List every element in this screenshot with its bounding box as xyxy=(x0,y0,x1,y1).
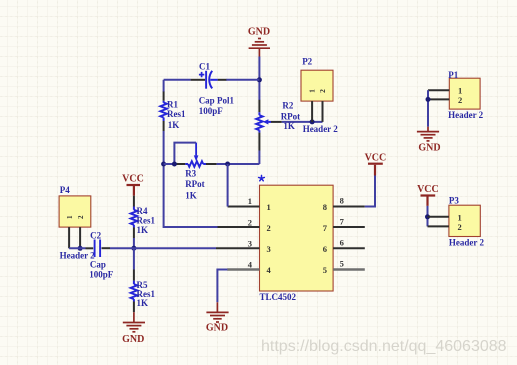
node junction P4 pin2 xyxy=(78,246,83,251)
U1 pin 5 xyxy=(333,268,365,270)
wire junction to R5 xyxy=(133,248,135,269)
svg-text:2: 2 xyxy=(267,223,271,233)
svg-text:100pF: 100pF xyxy=(199,106,224,116)
svg-text:C2: C2 xyxy=(90,230,101,240)
wire pin1 to net xyxy=(227,164,229,207)
svg-text:R3: R3 xyxy=(185,169,196,179)
P4 pin 2 xyxy=(79,227,81,248)
header P1 xyxy=(449,78,480,109)
power VCC (right of U1) xyxy=(374,165,376,176)
svg-text:3: 3 xyxy=(267,244,271,254)
node junction P3 pin1 xyxy=(425,214,430,219)
wire VCC to P3 xyxy=(427,206,429,227)
svg-text:VCC: VCC xyxy=(122,174,144,185)
P3 pin 1 xyxy=(428,216,449,218)
R2 wiper arrow xyxy=(263,119,269,124)
svg-text:1K: 1K xyxy=(137,298,149,308)
ground GND (top) xyxy=(249,39,270,57)
svg-text:https://blog.csdn.net/qq_46063: https://blog.csdn.net/qq_46063088 xyxy=(261,338,507,355)
svg-text:GND: GND xyxy=(122,334,144,345)
P2 pin 1 xyxy=(311,101,313,122)
R3 wiper arrow xyxy=(194,155,199,161)
svg-text:5: 5 xyxy=(323,265,327,275)
svg-text:2: 2 xyxy=(458,222,462,232)
wire C1 horizontal xyxy=(164,79,191,81)
U1 pin 8 xyxy=(333,206,365,208)
svg-text:GND: GND xyxy=(248,27,270,38)
node junction C1/GND/R2 xyxy=(257,77,262,82)
svg-text:VCC: VCC xyxy=(417,184,439,195)
svg-text:1K: 1K xyxy=(168,120,180,130)
resistor R4 xyxy=(133,196,135,207)
node junction P1 pin2 xyxy=(426,97,431,102)
U1 pin 3 xyxy=(216,247,260,249)
svg-text:8: 8 xyxy=(340,195,344,205)
svg-text:Header 2: Header 2 xyxy=(449,237,485,247)
wire top GND to C1 junction xyxy=(258,57,260,98)
wire R3 wiper loop xyxy=(174,143,196,164)
wire R1 branch vertical xyxy=(163,80,165,92)
U1 pin 7 xyxy=(333,226,365,228)
U1 pin 1 xyxy=(228,206,260,208)
svg-text:RPot: RPot xyxy=(185,179,205,189)
node junction R1/bus xyxy=(161,162,166,167)
node junction pin1 branch xyxy=(225,162,230,167)
svg-text:TLC4502: TLC4502 xyxy=(260,292,297,302)
svg-text:1K: 1K xyxy=(185,191,197,201)
svg-text:R2: R2 xyxy=(282,101,293,111)
wire R1 bottom to bus xyxy=(164,131,218,227)
svg-text:Cap: Cap xyxy=(90,260,106,270)
wire pin8 to VCC xyxy=(365,176,375,207)
svg-text:P1: P1 xyxy=(448,70,458,80)
svg-text:P2: P2 xyxy=(302,56,312,66)
svg-text:2: 2 xyxy=(77,215,85,219)
svg-text:Res1: Res1 xyxy=(167,109,186,119)
U1 pin 6 xyxy=(333,247,365,249)
svg-text:P4: P4 xyxy=(60,185,70,195)
svg-text:1K: 1K xyxy=(137,225,149,235)
node junction loop/left R3 xyxy=(172,162,177,167)
op-amp U1 TLC4502 body xyxy=(260,185,334,291)
svg-text:RPot: RPot xyxy=(281,112,301,122)
U1 pin 4 xyxy=(227,268,259,270)
resistor R5 xyxy=(133,270,135,281)
node junction R4/R5/pin3 xyxy=(131,246,136,251)
header P4 xyxy=(59,196,91,227)
svg-text:1: 1 xyxy=(66,215,74,219)
wire C2 to pin3 xyxy=(102,247,111,249)
svg-text:GND: GND xyxy=(206,323,228,334)
svg-text:8: 8 xyxy=(323,202,327,212)
wire P1 to GND xyxy=(427,90,429,127)
ground GND (below R5) xyxy=(123,312,145,332)
svg-text:6: 6 xyxy=(340,238,344,248)
potentiometer R2 xyxy=(256,115,263,130)
svg-text:Res1: Res1 xyxy=(137,215,156,225)
svg-text:7: 7 xyxy=(340,216,345,226)
svg-text:1: 1 xyxy=(267,202,271,212)
svg-text:Header 2: Header 2 xyxy=(303,124,339,134)
svg-text:6: 6 xyxy=(323,244,327,254)
P2 pin 2 xyxy=(322,101,324,122)
svg-text:2: 2 xyxy=(318,89,327,93)
capacitor C1 xyxy=(206,71,218,89)
ground GND (P1) xyxy=(417,127,439,141)
svg-text:P3: P3 xyxy=(449,196,459,206)
svg-text:Header 2: Header 2 xyxy=(448,110,484,120)
svg-text:5: 5 xyxy=(340,258,344,268)
U1 pin 2 xyxy=(218,226,260,228)
capacitor C2 xyxy=(94,240,96,258)
P3 pin 2 xyxy=(428,225,449,227)
wire horizontal net at y164 xyxy=(164,163,175,165)
wire P4 to C2 xyxy=(69,247,85,249)
svg-text:1: 1 xyxy=(248,196,252,206)
header P2 xyxy=(301,70,333,101)
wire R2 wiper to P2 xyxy=(282,121,323,123)
resistor R1 xyxy=(160,103,167,118)
ground GND (pin4) xyxy=(206,302,228,322)
potentiometer R3 xyxy=(188,161,203,167)
wire R4 to junction xyxy=(133,238,135,248)
P1 pin 1 xyxy=(428,89,449,91)
node junction P2 pin1 xyxy=(310,119,315,124)
svg-text:Cap Pol1: Cap Pol1 xyxy=(199,95,235,105)
header P3 xyxy=(449,205,480,236)
wire pin4 to ground xyxy=(217,270,227,303)
svg-text:3: 3 xyxy=(248,239,252,249)
svg-text:100pF: 100pF xyxy=(89,269,114,279)
svg-text:GND: GND xyxy=(418,143,440,154)
svg-text:C1: C1 xyxy=(199,62,210,72)
svg-text:1: 1 xyxy=(308,89,317,93)
svg-text:VCC: VCC xyxy=(365,152,387,163)
P1 pin 2 xyxy=(428,98,449,100)
P4 pin 1 xyxy=(68,227,70,248)
svg-text:2: 2 xyxy=(458,95,462,105)
svg-text:2: 2 xyxy=(248,217,252,227)
wire R2 vertical chain xyxy=(258,97,260,100)
